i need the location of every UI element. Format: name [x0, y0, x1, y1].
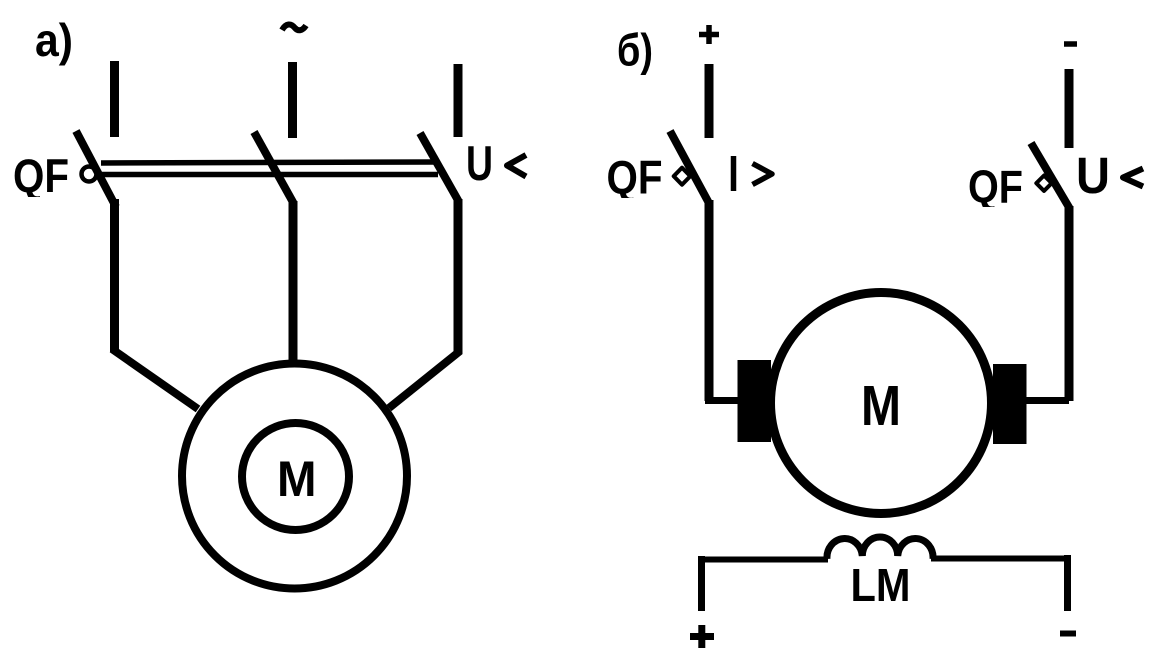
wire into left brush [705, 397, 739, 404]
wire pole1 diagonal to motor [112, 349, 198, 409]
wire - pole vertical to armature [1065, 206, 1074, 401]
supply line L1 [110, 61, 119, 137]
breaker QF trip-bar linkage (double line) [101, 162, 438, 175]
circuit breaker QF pole 3 blade [420, 133, 459, 202]
AC source symbol ~ [282, 24, 306, 30]
minus terminal (-) top right of b [1064, 41, 1077, 47]
wire pole3 vertical [454, 199, 463, 354]
motor M (b) armature circle [771, 293, 992, 514]
supply line - [1065, 69, 1074, 148]
wire pole1 vertical [110, 199, 119, 352]
label U< (undervoltage release) [466, 136, 526, 191]
minus terminal (-) of field supply [1060, 631, 1076, 637]
svg-text:LM: LM [851, 559, 911, 611]
wire LM left drop [698, 556, 705, 611]
circuit breaker QF (right, b) blade [1031, 143, 1070, 209]
motor M (b) left brush [738, 360, 772, 442]
supply line + [705, 64, 714, 138]
plus terminal (+) of field supply [690, 625, 714, 648]
label I> (overcurrent release) [734, 156, 773, 191]
circuit breaker QF pole 2 blade [254, 132, 294, 204]
svg-text:QF: QF [13, 149, 69, 202]
circuit breaker QF pole 1 release ring [82, 167, 97, 182]
svg-text:M: M [277, 451, 317, 507]
svg-text:QF: QF [607, 152, 663, 205]
motor M (a) stator outer circle [182, 364, 407, 589]
wire pole3 diagonal to motor [389, 351, 460, 408]
supply line L3 [454, 64, 463, 137]
circuit breaker QF (right, b) release diamond [1036, 176, 1051, 191]
circuit breaker QF (left, b) blade [670, 131, 710, 205]
supply line L2 [288, 62, 297, 138]
wire into right brush [1025, 397, 1069, 404]
svg-text:U: U [1076, 147, 1110, 204]
label U< (undervoltage release, b) [1076, 147, 1143, 204]
svg-text:M: M [861, 374, 901, 438]
motor M (a) rotor inner circle [242, 423, 349, 530]
svg-text:a): a) [35, 14, 73, 66]
svg-text:U: U [466, 136, 493, 191]
wire LM right lead [931, 556, 1071, 562]
wire pole2 vertical to motor [289, 201, 298, 362]
wire LM left lead [698, 557, 828, 563]
svg-text:QF: QF [968, 161, 1023, 213]
svg-text:б): б) [617, 25, 653, 76]
circuit breaker QF pole 1 blade [76, 131, 116, 207]
field winding LM coil [827, 537, 933, 559]
motor M (b) right brush [993, 364, 1027, 444]
plus terminal (+) top left of b [699, 25, 719, 44]
circuit breaker QF (left, b) release diamond [674, 168, 691, 185]
wire LM right drop [1064, 555, 1071, 611]
wire + pole vertical to armature [705, 200, 714, 401]
